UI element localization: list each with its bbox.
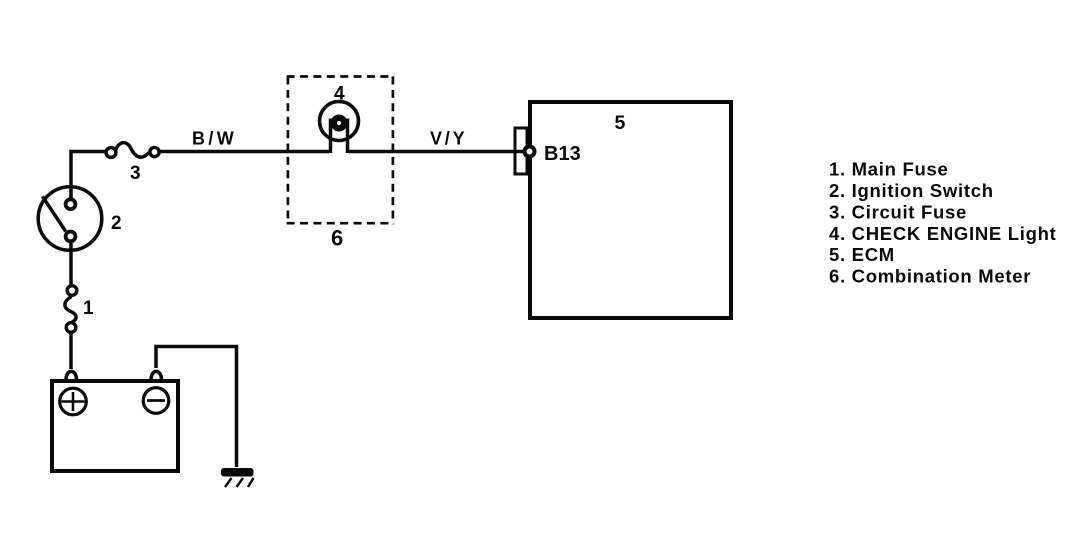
- svg-text:3: 3: [130, 163, 141, 184]
- svg-text:5. ECM: 5. ECM: [829, 244, 895, 265]
- svg-text:2. Ignition Switch: 2. Ignition Switch: [829, 180, 994, 201]
- svg-text:4. CHECK ENGINE Light: 4. CHECK ENGINE Light: [829, 223, 1056, 244]
- svg-text:V/Y: V/Y: [430, 129, 467, 149]
- svg-text:2: 2: [111, 213, 122, 234]
- svg-text:B/W: B/W: [192, 129, 237, 149]
- svg-text:4: 4: [334, 84, 345, 105]
- svg-text:B13: B13: [544, 143, 581, 165]
- svg-text:1. Main Fuse: 1. Main Fuse: [829, 159, 948, 180]
- svg-text:6. Combination Meter: 6. Combination Meter: [829, 266, 1031, 287]
- svg-text:3. Circuit Fuse: 3. Circuit Fuse: [829, 201, 967, 222]
- svg-text:1: 1: [83, 298, 94, 319]
- svg-text:6: 6: [331, 226, 343, 251]
- svg-text:5: 5: [615, 112, 626, 134]
